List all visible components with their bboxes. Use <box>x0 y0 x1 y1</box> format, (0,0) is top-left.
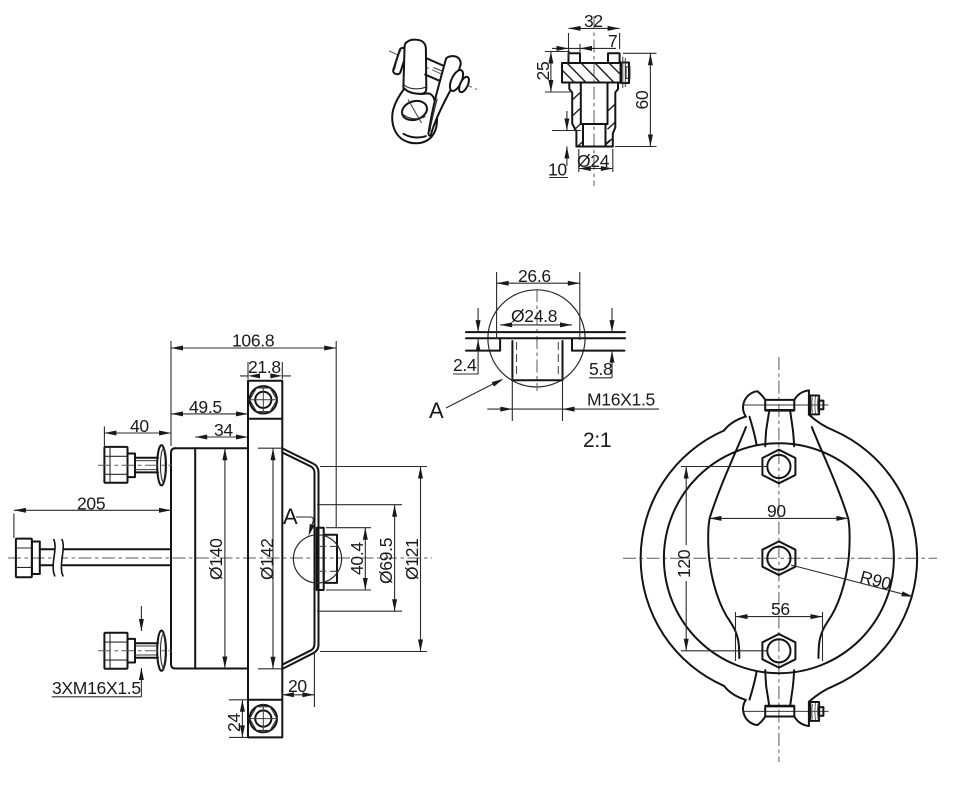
top stud underhead washer <box>128 454 136 478</box>
detail boundary circle <box>488 290 585 387</box>
dim 20 <box>282 652 315 707</box>
dim Ø69.5 <box>317 505 402 612</box>
top stud centerline <box>98 464 172 466</box>
bottom stud bolt head <box>104 633 127 669</box>
bottom stud underhead washer <box>128 639 136 663</box>
svg-text:3XM16X1.5: 3XM16X1.5 <box>52 678 141 698</box>
dim M16X1.5 <box>487 378 659 421</box>
main horizontal centerline <box>8 557 432 559</box>
hole crosshair <box>408 100 422 124</box>
plate top cap line <box>248 418 282 420</box>
flange top line left <box>466 350 500 352</box>
svg-text:20: 20 <box>288 676 307 696</box>
svg-text:2:1: 2:1 <box>583 429 611 452</box>
svg-text:56: 56 <box>771 599 790 619</box>
right arm inner crease <box>430 99 438 132</box>
counterbore wall right <box>571 338 573 350</box>
washer plate bottom line <box>466 337 625 339</box>
dim 90 <box>709 517 848 519</box>
top ear lug assembly <box>724 390 834 446</box>
dim 49.5 <box>171 413 248 415</box>
clevis pin axis <box>389 51 477 90</box>
bottom stud washer <box>157 631 166 671</box>
svg-text:106.8: 106.8 <box>232 331 274 351</box>
pushrod hex head <box>16 539 32 578</box>
clevis body <box>392 89 437 144</box>
pin bore walls lower <box>583 124 606 147</box>
dim 21.8 <box>240 362 291 379</box>
svg-text:90: 90 <box>767 501 786 521</box>
pin cylinder bottom edge <box>425 75 446 84</box>
bolt shaft end verticals <box>765 400 794 410</box>
dim 2.4 <box>453 308 478 374</box>
head right tab <box>608 53 620 63</box>
bolt shaft top <box>765 399 794 401</box>
top hex nut <box>762 450 795 484</box>
clamp plate outline <box>248 381 282 738</box>
housing inner wall <box>283 453 315 665</box>
dim 24 <box>229 700 248 738</box>
dim 120 <box>681 467 768 651</box>
pushrod boss flange <box>317 528 324 590</box>
left arm outer edge <box>724 417 746 431</box>
svg-text:A: A <box>283 504 298 529</box>
pin bottom edge <box>576 146 612 148</box>
left lug rounded end <box>743 391 765 416</box>
dim 56 <box>736 612 823 661</box>
top stud bolt head <box>104 447 127 483</box>
ear bolt centerline <box>743 404 829 406</box>
dim 10 <box>549 111 581 178</box>
washer plate top line <box>466 331 625 333</box>
diaphragm lens curve left <box>708 427 746 658</box>
vertical centerline <box>778 357 780 762</box>
gap right wall <box>790 410 794 446</box>
svg-text:Ø24.8: Ø24.8 <box>511 306 557 326</box>
tapped hole wall left <box>511 341 513 380</box>
detail centerline vertical <box>536 289 538 391</box>
tapped hole wall right <box>562 341 564 380</box>
dim 205 <box>14 510 171 538</box>
pin neck outer profile right <box>613 83 618 147</box>
bolt end washer <box>819 401 823 410</box>
dim 7 <box>552 44 616 52</box>
thread dashed left <box>516 342 518 378</box>
dim 25 <box>545 52 573 93</box>
dim 40.4 <box>326 528 371 590</box>
dim Ø140 <box>224 448 226 668</box>
bottom ear lug assembly (mirrored) <box>724 670 834 726</box>
bottom stud centerline <box>98 650 172 652</box>
svg-text:Ø24: Ø24 <box>577 151 610 171</box>
diaphragm lens curve right <box>812 427 850 658</box>
nut seat face <box>808 390 810 414</box>
bolt shaft bottom thick <box>765 409 795 412</box>
chamber top edge <box>175 447 248 449</box>
flange top line right <box>572 350 624 352</box>
thread dashed right <box>557 342 559 378</box>
svg-text:120: 120 <box>674 549 694 578</box>
bottom stud shank <box>135 643 158 658</box>
dim Ø142 <box>258 448 282 669</box>
middle hex nut <box>762 541 795 575</box>
chamber bottom edge <box>175 668 248 670</box>
pin cylinder mid dash <box>434 68 447 73</box>
svg-text:60: 60 <box>632 90 652 109</box>
retaining washer right <box>621 63 630 84</box>
pin end ring <box>447 68 466 93</box>
clevis pin head iso <box>392 47 407 75</box>
svg-text:26.6: 26.6 <box>518 266 551 286</box>
clevis hole inner shadow <box>403 115 426 119</box>
left lug bottom edge <box>750 417 757 445</box>
tapped hole bottom <box>512 379 562 381</box>
dim Ø121 <box>320 467 427 652</box>
top stud shank <box>135 458 158 473</box>
pin centerline <box>593 16 595 186</box>
svg-text:21.8: 21.8 <box>248 357 281 377</box>
svg-text:7: 7 <box>608 31 617 51</box>
svg-text:Ø69.5: Ø69.5 <box>376 538 396 584</box>
bottom hex nut <box>762 634 795 668</box>
svg-text:32: 32 <box>584 11 603 31</box>
pin bore step <box>581 123 608 125</box>
dim Ø24 <box>579 149 613 172</box>
head left tab <box>569 53 581 63</box>
svg-text:M16X1.5: M16X1.5 <box>587 390 655 410</box>
hex nut right <box>810 396 819 415</box>
neck wall hatch ticks <box>572 92 615 146</box>
pin cylinder top edge <box>426 58 451 69</box>
svg-text:49.5: 49.5 <box>189 397 222 417</box>
right fork arm <box>428 56 460 135</box>
dim Ø24.8 <box>500 324 572 326</box>
clamp band inner circle <box>664 443 894 673</box>
dim 60 <box>615 53 657 146</box>
svg-text:25: 25 <box>533 62 553 81</box>
retaining nut small rect <box>626 67 630 79</box>
left plate bottom cap line <box>404 84 426 89</box>
svg-text:40: 40 <box>130 416 149 436</box>
dim 32 <box>569 28 620 58</box>
pushrod boss cylinder <box>324 535 337 583</box>
pushrod washer plate <box>32 542 40 575</box>
dim 5.8 <box>589 308 612 378</box>
gap left wall <box>765 410 769 446</box>
chamber cover outline <box>171 448 176 668</box>
counterbore wall left <box>499 338 501 350</box>
svg-text:5.8: 5.8 <box>589 359 612 379</box>
housing top slant edge <box>282 448 318 668</box>
plate top bolt <box>249 385 279 415</box>
pin neck outer profile left <box>569 83 576 147</box>
svg-text:A: A <box>429 398 444 423</box>
pushrod shaft <box>40 549 171 565</box>
svg-text:Ø140: Ø140 <box>206 538 226 580</box>
left fork plate <box>403 40 426 94</box>
plate bottom bolt <box>249 704 279 734</box>
dim 26.6 <box>497 272 580 340</box>
clamp band outer circle left arc <box>641 431 724 686</box>
right arm outer edge <box>809 415 834 431</box>
detail indicator circle A <box>293 535 341 583</box>
svg-text:205: 205 <box>77 494 105 514</box>
right arm top edge <box>794 390 809 400</box>
boss tapped hole hidden lines <box>318 546 337 571</box>
body bottom chord <box>404 134 426 138</box>
svg-text:24: 24 <box>224 713 244 732</box>
clevis hole <box>399 98 429 123</box>
dim 3XM16X1.5 callout <box>52 606 142 697</box>
clamp band outer circle right arc <box>834 431 917 686</box>
leader R90 <box>791 565 912 596</box>
horizontal centerline <box>623 557 937 559</box>
svg-text:40.4: 40.4 <box>347 542 367 575</box>
dim 106.8 <box>171 341 336 527</box>
svg-text:2.4: 2.4 <box>453 355 477 375</box>
head hatching <box>562 63 621 83</box>
plate bottom cap line <box>248 699 282 701</box>
svg-text:Ø142: Ø142 <box>257 538 277 580</box>
svg-text:10: 10 <box>548 160 567 180</box>
pin end stub <box>457 75 471 93</box>
cover step line <box>194 448 196 668</box>
dim 34 <box>195 436 248 438</box>
pin head section (hatched) <box>562 63 621 83</box>
top stud washer <box>157 445 166 485</box>
svg-text:34: 34 <box>214 420 233 440</box>
retaining plate thin edge <box>623 57 626 88</box>
svg-text:Ø121: Ø121 <box>402 538 422 580</box>
dim 40 <box>104 427 171 447</box>
pushrod break symbol <box>53 539 63 577</box>
pin bore walls upper <box>581 83 608 125</box>
